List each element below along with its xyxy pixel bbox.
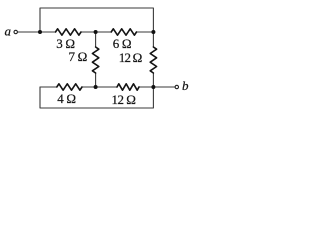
wire 6-ohm resistor to node C <box>137 31 154 33</box>
svg-text:6 Ω: 6 Ω <box>113 36 132 51</box>
wire 3-ohm resistor to node B <box>81 31 96 33</box>
node B junction dot <box>94 30 98 34</box>
terminal a open circle <box>14 30 17 33</box>
resistor 6-ohm (top right, horizontal) <box>111 29 136 35</box>
wire bottom-left corner to 4-ohm resistor <box>40 86 57 88</box>
wire bottom shorting loop from corner F around to node E <box>40 87 153 108</box>
wire node C down to 12-ohm resistor <box>152 32 154 47</box>
svg-text:a: a <box>5 24 12 39</box>
wire 7-ohm resistor down to node D <box>95 73 97 87</box>
wire node A to 3-ohm resistor <box>40 31 56 33</box>
node A junction dot <box>38 30 42 34</box>
wire node B down to 7-ohm resistor <box>95 32 97 47</box>
wire 12-ohm resistor down to node E <box>152 73 154 87</box>
wire bottom 12-ohm resistor to node E <box>139 86 153 88</box>
resistor 4-ohm (bottom left, horizontal) <box>57 84 82 90</box>
wire node E to terminal b <box>153 86 175 88</box>
svg-text:b: b <box>182 78 189 93</box>
wire node B to 6-ohm resistor <box>96 31 112 33</box>
wire terminal a to node A <box>17 31 40 33</box>
svg-text:12 Ω: 12 Ω <box>112 92 136 107</box>
svg-text:7 Ω: 7 Ω <box>68 49 87 64</box>
node E junction dot <box>151 85 155 89</box>
resistor 7-ohm (left vertical) <box>92 47 98 73</box>
resistor 3-ohm (top left, horizontal) <box>56 29 82 35</box>
resistor 12-ohm (bottom right, horizontal) <box>117 84 139 90</box>
wire 4-ohm resistor to node D <box>82 86 96 88</box>
node C junction dot <box>151 30 155 34</box>
wire node D to bottom 12-ohm resistor <box>96 86 117 88</box>
terminal b open circle <box>175 85 178 88</box>
resistor 12-ohm (right vertical) <box>150 47 156 73</box>
svg-text:12 Ω: 12 Ω <box>119 50 142 65</box>
svg-text:4 Ω: 4 Ω <box>57 91 76 106</box>
node D junction dot <box>94 85 98 89</box>
wire top rail from node A up and across to node C <box>40 8 153 32</box>
